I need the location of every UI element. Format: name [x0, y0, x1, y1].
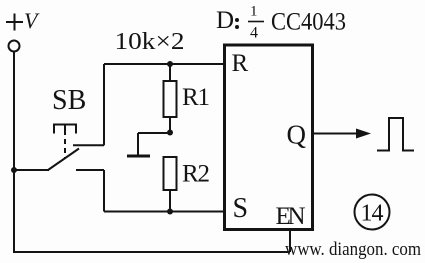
svg-text:1: 1	[250, 4, 258, 20]
svg-text:S: S	[233, 193, 249, 224]
svg-text:R2: R2	[182, 161, 210, 188]
svg-text:R: R	[232, 50, 249, 77]
svg-text:14: 14	[361, 201, 384, 227]
svg-text:R1: R1	[182, 84, 210, 111]
svg-text:EN: EN	[276, 203, 306, 230]
svg-text:CC4043: CC4043	[271, 9, 346, 36]
svg-text:SB: SB	[52, 85, 86, 116]
svg-text:4: 4	[250, 25, 258, 42]
svg-text:D: D	[216, 7, 234, 34]
svg-text:10k×2: 10k×2	[115, 29, 185, 55]
svg-text:www. diangon. com: www. diangon. com	[285, 239, 421, 260]
svg-text:V: V	[24, 8, 40, 33]
svg-text:Q: Q	[287, 120, 307, 150]
